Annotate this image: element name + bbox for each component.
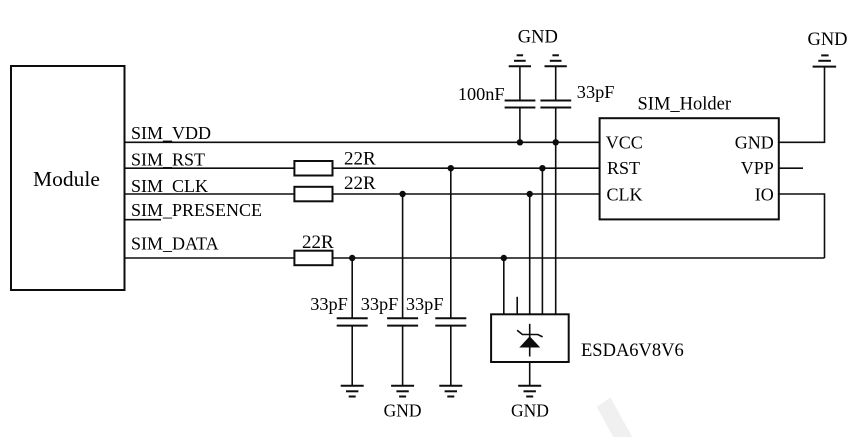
capacitor C3 33pF bbox=[337, 318, 368, 385]
svg-text:GND: GND bbox=[807, 30, 847, 50]
wire VPP stub bbox=[779, 167, 803, 169]
svg-text:SIM_Holder: SIM_Holder bbox=[638, 95, 732, 115]
svg-text:33pF: 33pF bbox=[406, 294, 444, 314]
wire GND pin to top right ground bbox=[779, 67, 825, 143]
svg-text:100nF: 100nF bbox=[458, 84, 505, 104]
wire SIM_VDD bbox=[125, 141, 600, 143]
capacitor C5 33pF bbox=[435, 318, 466, 385]
wire VDD to ESD pin5 bbox=[555, 142, 557, 314]
svg-text:IO: IO bbox=[755, 184, 774, 204]
module U-Module box bbox=[11, 66, 125, 290]
junction dot RST-C5 bbox=[448, 165, 454, 171]
wire SIM_PRESENCE stub bbox=[125, 219, 162, 221]
wire SIM_DATA right bbox=[333, 257, 825, 259]
svg-text:VCC: VCC bbox=[606, 133, 643, 153]
ground GND C5 bbox=[439, 386, 462, 397]
ground GND top right bbox=[813, 55, 837, 66]
wire CLK to ESD pin3 bbox=[529, 194, 531, 314]
wire SIM_RST right bbox=[333, 167, 600, 169]
svg-text:SIM_VDD: SIM_VDD bbox=[131, 123, 211, 143]
ground GND C4 bbox=[391, 386, 414, 397]
svg-text:33pF: 33pF bbox=[361, 294, 399, 314]
svg-text:Module: Module bbox=[33, 167, 100, 191]
junction dot DATA-ESD bbox=[501, 255, 507, 261]
svg-text:SIM_RST: SIM_RST bbox=[131, 150, 205, 170]
junction dot VDD-C1 bbox=[517, 139, 523, 145]
ESD diode array U2 box bbox=[491, 314, 569, 362]
wire CLK to C4 bbox=[402, 194, 404, 318]
svg-text:CLK: CLK bbox=[607, 184, 643, 204]
svg-text:SIM_CLK: SIM_CLK bbox=[131, 176, 208, 196]
svg-text:SIM_DATA: SIM_DATA bbox=[131, 234, 219, 254]
svg-text:GND: GND bbox=[511, 401, 549, 421]
ground GND ESD bbox=[518, 386, 541, 397]
svg-text:ESDA6V8V6: ESDA6V8V6 bbox=[581, 341, 684, 361]
wire SIM_RST left bbox=[125, 167, 295, 169]
svg-text:VPP: VPP bbox=[741, 158, 774, 178]
capacitor C1 100nF bbox=[505, 66, 536, 142]
wire ESD to ground bbox=[529, 362, 531, 386]
wire RST to C5 bbox=[450, 168, 452, 318]
resistor R2 22R body bbox=[294, 187, 332, 202]
watermark stripe bbox=[597, 398, 635, 437]
svg-text:SIM_PRESENCE: SIM_PRESENCE bbox=[131, 200, 262, 220]
svg-text:22R: 22R bbox=[344, 148, 376, 169]
resistor R3 22R body bbox=[294, 251, 332, 266]
wire DATA to C3 bbox=[351, 258, 353, 318]
junction dot DATA-C3 bbox=[349, 255, 355, 261]
junction dot RST-ESD bbox=[539, 165, 545, 171]
ground GND top (for C1 C2) bbox=[509, 55, 567, 66]
diode D1 TVS symbol bbox=[517, 324, 543, 357]
svg-text:GND: GND bbox=[735, 133, 774, 153]
junction dot VDD-C2 bbox=[553, 139, 559, 145]
capacitor C2 33pF top bbox=[540, 66, 571, 142]
svg-text:RST: RST bbox=[607, 158, 640, 178]
wire SIM_CLK left bbox=[125, 193, 295, 195]
wire SIM_CLK right bbox=[333, 193, 600, 195]
svg-text:GND: GND bbox=[384, 401, 422, 421]
capacitor C4 33pF bbox=[387, 318, 418, 385]
wire IO to SIM_DATA bbox=[779, 194, 825, 258]
svg-text:22R: 22R bbox=[344, 173, 376, 194]
resistor R1 22R body bbox=[294, 161, 332, 176]
wire ESD pin2 stub bbox=[516, 297, 518, 315]
svg-text:22R: 22R bbox=[302, 232, 334, 253]
connector J1 SIM holder box bbox=[600, 118, 779, 219]
wire DATA to ESD pin1 bbox=[503, 258, 505, 314]
svg-text:33pF: 33pF bbox=[577, 82, 615, 102]
svg-text:GND: GND bbox=[518, 28, 558, 48]
junction dot CLK-C4 bbox=[399, 191, 405, 197]
ground GND C3 bbox=[341, 386, 364, 397]
junction dot CLK-ESD bbox=[527, 191, 533, 197]
svg-text:33pF: 33pF bbox=[310, 294, 348, 314]
wire SIM_DATA left bbox=[125, 257, 295, 259]
wire RST to ESD pin4 bbox=[541, 168, 543, 314]
